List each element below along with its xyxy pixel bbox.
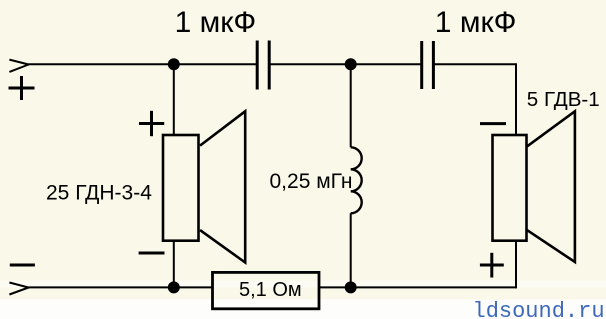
wire: BA1 down to node C: [173, 240, 175, 287]
node A (junction dot top-left): [168, 58, 180, 70]
plus polarity mark at BA1: [139, 111, 164, 136]
svg-text:ldsound.ru: ldsound.ru: [473, 299, 605, 319]
node C (junction dot bottom-left): [168, 281, 180, 293]
wire: C2 to top-right corner: [433, 63, 516, 65]
wire: resistor R1 to node D: [319, 286, 351, 288]
wire: node A to capacitor C1: [174, 63, 257, 65]
wire: top-right corner down to speaker BA2: [515, 63, 517, 136]
svg-text:0,25 мГн: 0,25 мГн: [270, 170, 353, 193]
inductor L1 (0,25 мГн): [351, 147, 362, 213]
svg-text:5,1 Ом: 5,1 Ом: [239, 279, 302, 301]
node D (junction dot bottom-middle): [345, 281, 357, 293]
svg-text:25 ГДН-3-4: 25 ГДН-3-4: [46, 182, 152, 205]
wire: node B to capacitor C2: [351, 63, 422, 65]
resistor R1 (5,1 Ом): [213, 272, 320, 308]
plus polarity mark at input + terminal: [9, 76, 35, 100]
minus polarity mark at BA2: [480, 122, 506, 125]
wire: input+ to node A: [29, 63, 174, 65]
minus polarity mark at BA1: [139, 252, 165, 255]
capacitor C1: [257, 41, 269, 90]
wire: inductor L1 down to node D: [350, 213, 352, 287]
plus polarity mark at BA2: [480, 253, 504, 278]
node B (junction dot top-middle): [345, 58, 357, 70]
svg-text:5 ГДВ-1: 5 ГДВ-1: [527, 88, 600, 111]
wire: node B down to inductor L1: [350, 64, 352, 147]
capacitor C2: [422, 41, 434, 89]
speaker BA2 cone: [527, 111, 575, 262]
wire: node C to resistor R1: [174, 286, 213, 288]
speaker BA1 cone: [200, 111, 245, 262]
minus polarity mark at input - terminal: [10, 264, 35, 267]
wire: input- to node C: [29, 286, 174, 288]
input terminal + (top-left arrow): [9, 60, 28, 72]
wire: C1 to node B: [269, 63, 351, 65]
wire: node D to bottom-right corner: [351, 286, 516, 288]
svg-text:1 мкФ: 1 мкФ: [435, 6, 517, 39]
svg-text:1 мкФ: 1 мкФ: [175, 6, 257, 39]
input terminal - (bottom-left arrow): [9, 283, 28, 295]
wire: node A down to speaker BA1: [173, 64, 175, 136]
speaker BA1 magnet body (25 ГДН-3-4): [163, 135, 199, 241]
speaker BA2 magnet body (5 ГДВ-1): [493, 135, 527, 241]
wire: bottom-right corner up to speaker BA2: [515, 240, 517, 288]
